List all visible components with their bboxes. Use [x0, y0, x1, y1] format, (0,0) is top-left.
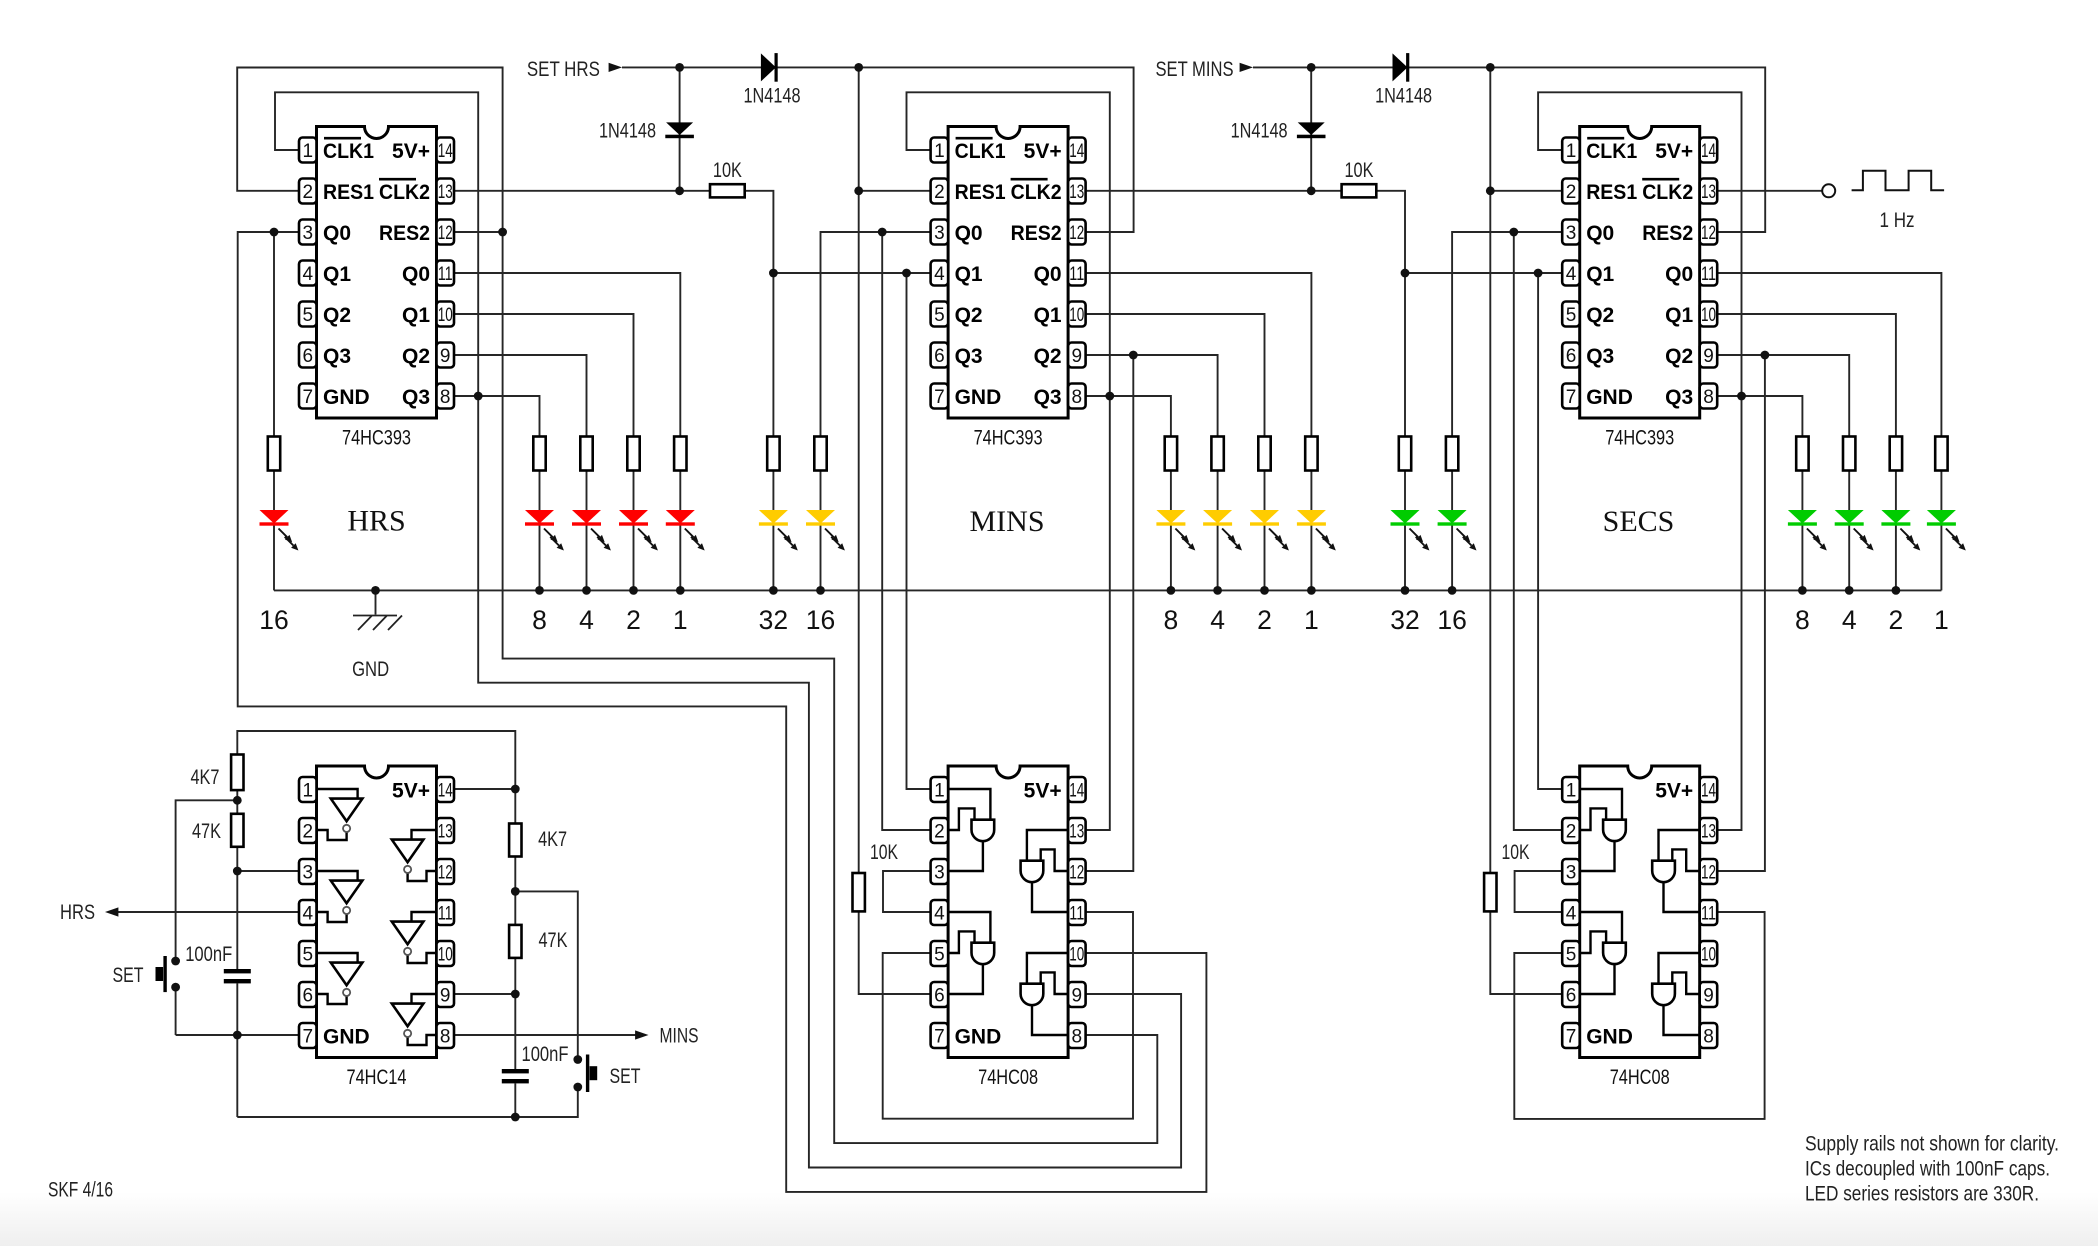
resistor 330R LED column 4 — [580, 437, 592, 471]
junction — [498, 228, 507, 237]
junction — [629, 586, 638, 595]
svg-text:2: 2 — [303, 182, 314, 203]
wire LED column x=820.5 resistor to LED — [820, 471, 822, 511]
resistor 330R LED column 32 — [1399, 437, 1411, 471]
svg-text:74HC14: 74HC14 — [347, 1066, 407, 1089]
svg-text:Q0: Q0 — [1034, 263, 1062, 286]
junction — [1307, 586, 1316, 595]
svg-text:13: 13 — [1069, 182, 1084, 203]
svg-text:10K: 10K — [713, 159, 742, 182]
AND gate U5c (pins 13,12-11) — [1021, 830, 1069, 912]
svg-text:5: 5 — [934, 945, 945, 966]
svg-text:2: 2 — [1566, 182, 1577, 203]
junction — [1892, 586, 1901, 595]
wire MINS RES1 stub — [859, 190, 931, 192]
wire 47KR to capR — [514, 958, 516, 1069]
wire HRS Q0 pin3 to U5 pin 10 (S3) — [238, 232, 1207, 1192]
svg-text:6: 6 — [303, 346, 314, 367]
svg-text:GND: GND — [323, 386, 370, 409]
wire LED column x=773.4 LED to bus — [772, 526, 774, 591]
svg-text:7: 7 — [303, 387, 314, 408]
wire MINS CLK1 feedback / Q3 to U5 pin 13 — [907, 92, 1110, 830]
svg-text:2: 2 — [303, 822, 314, 843]
wire U4 pin 3 stub — [237, 870, 299, 872]
svg-text:47K: 47K — [192, 820, 221, 843]
svg-text:7: 7 — [934, 1027, 945, 1048]
wire LED column x=1452.1 resistor to LED — [1451, 471, 1453, 511]
junction — [233, 1031, 242, 1040]
svg-text:10K: 10K — [1502, 841, 1530, 864]
wire HRS CLK2 row to 10K — [454, 190, 710, 192]
svg-text:74HC393: 74HC393 — [342, 427, 411, 450]
wire LED column x=1405 resistor to LED — [1404, 471, 1406, 511]
svg-text:11: 11 — [438, 264, 453, 285]
LED 2 (red) — [619, 510, 658, 551]
resistor 330R LED column 8 — [1165, 437, 1177, 471]
svg-text:Q1: Q1 — [955, 263, 983, 286]
svg-text:13: 13 — [438, 822, 453, 843]
IC U6 74HC08 (reset logic) — [1562, 766, 1717, 1089]
diode 1N4148 D4 (SET MINS series) — [1375, 53, 1432, 107]
svg-text:5V+: 5V+ — [1024, 140, 1062, 163]
svg-text:12: 12 — [438, 223, 453, 244]
wire LED column x=1217.6 LED to bus — [1217, 526, 1219, 591]
junction — [878, 228, 887, 237]
svg-text:10K: 10K — [1345, 159, 1374, 182]
svg-text:14: 14 — [1701, 141, 1716, 162]
svg-text:12: 12 — [1701, 223, 1716, 244]
arrow SET MINS — [1240, 63, 1253, 72]
svg-text:Q3: Q3 — [323, 345, 351, 368]
svg-text:Q2: Q2 — [1586, 304, 1614, 327]
arrow SET HRS — [609, 63, 622, 72]
svg-text:Q1: Q1 — [402, 304, 430, 327]
arrow MINS output — [635, 1030, 648, 1039]
wire LED column x=1895.9 LED to bus — [1895, 526, 1897, 591]
LED 1 (green) — [1927, 510, 1966, 551]
wire U4 pin 14 stub — [454, 788, 515, 790]
wire HRS RES2 stub — [454, 231, 503, 233]
inverter U4f (pins 9-8) — [392, 994, 437, 1045]
wire LED column x=1264.5 resistor to LED — [1264, 471, 1266, 511]
wire LED column x=274 LED to bus — [273, 526, 275, 591]
svg-text:SET HRS: SET HRS — [527, 58, 600, 81]
svg-text:10: 10 — [438, 305, 453, 326]
LED 32 (yellow) — [759, 510, 798, 551]
junction — [511, 785, 520, 794]
wire GND stub — [375, 590, 377, 614]
LED 4 (red) — [572, 510, 611, 551]
svg-text:4K7: 4K7 — [538, 828, 567, 851]
svg-text:3: 3 — [1566, 223, 1577, 244]
wire U5 pin 3 to pin 4 link — [883, 871, 931, 912]
svg-text:Q3: Q3 — [1665, 386, 1693, 409]
capacitor 100nF (MINS set) — [502, 1043, 569, 1083]
wire diode D2 branch — [1310, 67, 1312, 190]
svg-text:7: 7 — [1566, 1027, 1577, 1048]
svg-text:74HC08: 74HC08 — [1610, 1066, 1670, 1089]
wire HRS Q0b to LED-1 column — [454, 273, 680, 437]
wire SECS Q3 to LED-8 column — [1717, 396, 1802, 437]
resistor 330R LED column 1 — [1305, 437, 1317, 471]
svg-text:5: 5 — [303, 945, 314, 966]
svg-text:CLK1: CLK1 — [955, 140, 1006, 163]
svg-text:11: 11 — [438, 904, 453, 925]
wire 5V loop over U4 — [237, 731, 515, 789]
wire capL to rail — [236, 983, 238, 1117]
svg-text:2: 2 — [626, 605, 641, 635]
svg-text:9: 9 — [440, 346, 451, 367]
svg-text:5V+: 5V+ — [392, 140, 430, 163]
junction — [1761, 351, 1770, 360]
svg-text:4: 4 — [934, 264, 945, 285]
junction — [675, 186, 684, 195]
wire HRS LED-16 column top — [273, 232, 275, 437]
svg-text:Q2: Q2 — [402, 345, 430, 368]
wire 5V to 4K7R — [514, 789, 516, 824]
svg-text:32: 32 — [759, 605, 788, 635]
wire LED column x=274 resistor to LED — [273, 471, 275, 511]
svg-text:13: 13 — [1701, 182, 1716, 203]
wire LED column x=1264.5 LED to bus — [1264, 526, 1266, 591]
junction — [371, 586, 380, 595]
wire MINS Q3 to LED-8 column — [1086, 396, 1171, 437]
junction — [1105, 392, 1114, 401]
resistor 10K (HRS clock) — [710, 159, 745, 197]
junction — [1129, 351, 1138, 360]
wire LED column x=633.5 LED to bus — [633, 526, 635, 591]
junction — [233, 867, 242, 876]
svg-text:SECS: SECS — [1603, 505, 1675, 538]
wire LED column x=1802.4 resistor to LED — [1801, 471, 1803, 511]
junction — [1401, 586, 1410, 595]
wire U4 pin 4 HRS output — [112, 911, 299, 913]
wire SECS Q0 row to LED-16 column — [1452, 232, 1562, 437]
LED 1 (red) — [666, 510, 705, 551]
AND gate U6a (pins 1,2-3) — [1580, 789, 1626, 871]
resistor 10K (U6 reset) — [1484, 841, 1529, 911]
svg-text:14: 14 — [1069, 781, 1084, 802]
IC U5 74HC08 (reset logic) — [931, 766, 1086, 1089]
svg-text:Q0: Q0 — [402, 263, 430, 286]
junction — [511, 887, 520, 896]
junction — [816, 586, 825, 595]
svg-text:1: 1 — [303, 141, 314, 162]
svg-text:10K: 10K — [870, 841, 898, 864]
wire SECS Q0 to U6 pin 2 — [1514, 232, 1562, 830]
inverter U4b (pins 3-4) — [317, 871, 363, 922]
svg-text:32: 32 — [1390, 605, 1419, 635]
junction — [1401, 269, 1410, 278]
wire MINS Q1 row — [773, 272, 930, 274]
LED 4 (green) — [1835, 510, 1874, 551]
svg-text:12: 12 — [438, 863, 453, 884]
junction — [233, 796, 242, 805]
wire HRS Q2 to LED-4 column — [454, 355, 587, 437]
svg-text:Q0: Q0 — [1665, 263, 1693, 286]
svg-text:9: 9 — [440, 986, 451, 1007]
wire HRS Q1 to LED-2 column — [454, 314, 634, 437]
svg-text:GND: GND — [1586, 1025, 1633, 1048]
junction — [676, 586, 685, 595]
svg-text:8: 8 — [1072, 387, 1083, 408]
wire LED column x=1311.4 resistor to LED — [1310, 471, 1312, 511]
diode 1N4148 D1 (SET HRS) — [599, 120, 694, 143]
resistor 330R LED column 16 — [1446, 437, 1458, 471]
svg-text:5V+: 5V+ — [1655, 779, 1693, 802]
svg-text:13: 13 — [1701, 822, 1716, 843]
IC U3 74HC393 (seconds counter) — [1562, 127, 1717, 450]
capacitor 100nF (HRS set) — [185, 943, 251, 983]
svg-text:MINS: MINS — [660, 1025, 699, 1048]
wire MINS Q0b to LED-1 column — [1086, 273, 1312, 437]
wire LED column x=1849.2 LED to bus — [1848, 526, 1850, 591]
svg-text:4: 4 — [934, 904, 945, 925]
wire LED column x=1941.4 LED to bus — [1940, 526, 1942, 591]
wire SECS RES1 vertical — [1489, 67, 1491, 873]
wire LED column x=1941.4 resistor to LED — [1940, 471, 1942, 511]
svg-text:14: 14 — [438, 141, 453, 162]
wire SECS Q1b to LED-2 column — [1717, 314, 1896, 437]
svg-text:3: 3 — [934, 863, 945, 884]
svg-text:1 Hz: 1 Hz — [1880, 209, 1915, 232]
svg-text:3: 3 — [1566, 863, 1577, 884]
svg-text:1N4148: 1N4148 — [599, 120, 656, 143]
resistor 330R LED column 1 — [1935, 437, 1947, 471]
svg-text:Q3: Q3 — [1034, 386, 1062, 409]
svg-text:8: 8 — [1072, 1027, 1083, 1048]
svg-text:4: 4 — [303, 904, 314, 925]
inverter U4d (pins 13-12) — [392, 830, 437, 881]
svg-text:Q1: Q1 — [323, 263, 351, 286]
AND gate U6b (pins 4,5-6) — [1580, 912, 1626, 994]
wire HRS reset net: RES1/RES2 to U5 pin 8 (S2) — [237, 68, 1157, 1144]
resistor 10K (MINS clock) — [1342, 159, 1377, 197]
svg-text:Q2: Q2 — [1034, 345, 1062, 368]
svg-text:1N4148: 1N4148 — [1375, 85, 1432, 108]
svg-text:6: 6 — [1566, 346, 1577, 367]
wire LED column x=680.3 resistor to LED — [679, 471, 681, 511]
junction — [1845, 586, 1854, 595]
wire MINS Q1b to LED-2 column — [1086, 314, 1265, 437]
LED 32 (green) — [1391, 510, 1430, 551]
svg-text:8: 8 — [440, 1027, 451, 1048]
svg-text:6: 6 — [934, 986, 945, 1007]
AND gate U5a (pins 1,2-3) — [948, 789, 994, 871]
svg-text:GND: GND — [955, 1025, 1002, 1048]
junction — [1167, 586, 1176, 595]
svg-text:MINS: MINS — [969, 505, 1044, 538]
svg-text:8: 8 — [1703, 1027, 1714, 1048]
junction — [902, 269, 911, 278]
svg-text:3: 3 — [303, 863, 314, 884]
svg-text:SET MINS: SET MINS — [1156, 58, 1234, 81]
svg-text:1: 1 — [303, 781, 314, 802]
wire U4 pin 8 MINS output — [454, 1034, 636, 1036]
svg-text:Q2: Q2 — [323, 304, 351, 327]
svg-text:11: 11 — [1069, 904, 1084, 925]
svg-text:8: 8 — [1703, 387, 1714, 408]
svg-text:13: 13 — [1069, 822, 1084, 843]
wire MINS CLK2 row to 10K — [1086, 190, 1342, 192]
wire LED column x=820.5 LED to bus — [820, 526, 822, 591]
wire U4 pin 9 stub — [454, 993, 515, 995]
svg-text:Q0: Q0 — [1586, 222, 1614, 245]
svg-text:Q2: Q2 — [1665, 345, 1693, 368]
wire MINS Q0 row to LED-16 column — [821, 232, 931, 437]
resistor 330R LED column 8 — [533, 437, 545, 471]
svg-text:11: 11 — [1069, 264, 1084, 285]
svg-text:2: 2 — [1889, 605, 1904, 635]
svg-text:RES1: RES1 — [955, 181, 1006, 204]
svg-text:5: 5 — [1566, 945, 1577, 966]
svg-text:7: 7 — [303, 1027, 314, 1048]
junction — [1213, 586, 1222, 595]
wire U6 pin 3 to pin 4 link — [1515, 871, 1563, 912]
wire 10K-MINS to SECS Q1 node — [1376, 191, 1405, 273]
svg-text:2: 2 — [934, 182, 945, 203]
resistor 47K (HRS set) — [192, 814, 244, 847]
resistor 47K (MINS set) — [509, 925, 567, 958]
resistor 4K7 (HRS set) — [191, 755, 244, 791]
junction — [1486, 186, 1495, 195]
resistor 330R LED column 8 — [1796, 437, 1808, 471]
svg-text:1: 1 — [1934, 605, 1949, 635]
svg-text:HRS: HRS — [60, 901, 95, 924]
svg-text:12: 12 — [1701, 863, 1716, 884]
junction — [675, 63, 684, 72]
svg-text:9: 9 — [1072, 986, 1083, 1007]
svg-text:4: 4 — [1210, 605, 1225, 635]
wire SECS RES1 stub — [1490, 190, 1562, 192]
AND gate U5b (pins 4,5-6) — [948, 912, 994, 994]
wire HRS Q3 to LED-8 column — [454, 396, 540, 437]
wire LED column x=633.5 resistor to LED — [633, 471, 635, 511]
wire capR to rail — [514, 1083, 516, 1117]
inverter U4a (pins 1-2) — [317, 789, 363, 840]
svg-text:Q1: Q1 — [1586, 263, 1614, 286]
wire SECS CLK1 feedback / Q3 to U6 pin 13 — [1538, 92, 1741, 830]
resistor 330R LED column 4 — [1211, 437, 1223, 471]
svg-text:1: 1 — [1304, 605, 1319, 635]
junction — [854, 186, 863, 195]
svg-text:RES1: RES1 — [1586, 181, 1637, 204]
svg-text:4K7: 4K7 — [191, 766, 220, 789]
wire MINS Q2 to U5 pin 12 — [1086, 355, 1134, 871]
svg-text:5V+: 5V+ — [1655, 140, 1693, 163]
svg-text:CLK1: CLK1 — [1586, 140, 1637, 163]
svg-text:9: 9 — [1703, 986, 1714, 1007]
svg-text:7: 7 — [1566, 387, 1577, 408]
wire MINS Q1 to U5 pin 1 — [907, 273, 931, 789]
IC U1 74HC393 (hours counter) — [299, 127, 454, 450]
svg-text:4: 4 — [1842, 605, 1857, 635]
wire LED column x=1405 LED to bus — [1404, 526, 1406, 591]
junction — [1798, 586, 1807, 595]
resistor 330R LED column 2 — [1890, 437, 1902, 471]
wire SECS Q2 to LED-4 column — [1717, 355, 1849, 437]
svg-text:6: 6 — [934, 346, 945, 367]
wire 47KL to cap — [236, 847, 238, 969]
junction — [1486, 63, 1495, 72]
wire 10K-U6 to U6 pin 6 — [1490, 911, 1562, 994]
wire LED column x=1311.4 LED to bus — [1310, 526, 1312, 591]
svg-text:1: 1 — [1566, 781, 1577, 802]
svg-text:LED series resistors are 330R.: LED series resistors are 330R. — [1805, 1183, 2039, 1206]
svg-text:74HC393: 74HC393 — [974, 427, 1043, 450]
svg-text:2: 2 — [1566, 822, 1577, 843]
svg-text:Q0: Q0 — [955, 222, 983, 245]
svg-text:11: 11 — [1701, 904, 1716, 925]
wire LED column x=586.5 resistor to LED — [586, 471, 588, 511]
svg-text:RES2: RES2 — [1011, 222, 1062, 245]
diode 1N4148 D2 (SET MINS) — [1231, 120, 1326, 143]
junction — [535, 586, 544, 595]
svg-text:HRS: HRS — [347, 505, 405, 538]
svg-text:3: 3 — [934, 223, 945, 244]
svg-text:14: 14 — [1701, 781, 1716, 802]
svg-text:13: 13 — [438, 182, 453, 203]
wire bottom rail — [237, 1087, 578, 1117]
diode 1N4148 D3 (SET HRS series) — [744, 53, 801, 107]
wire LED cathode bus — [274, 589, 1941, 591]
svg-text:CLK1: CLK1 — [323, 140, 374, 163]
resistor 330R LED column 16 — [814, 437, 826, 471]
svg-text:SET: SET — [113, 964, 144, 987]
wire HRS CLK1 feedback / Q3 to U5 pin 9 (S1) — [275, 92, 1181, 1167]
wire SET MINS net — [1253, 67, 1765, 232]
1 Hz clock waveform symbol — [1852, 171, 1945, 191]
ground — [352, 616, 402, 682]
svg-text:8: 8 — [1795, 605, 1810, 635]
wire SET HRS net — [622, 67, 1134, 232]
svg-text:CLK2: CLK2 — [1011, 181, 1062, 204]
svg-text:Q1: Q1 — [1665, 304, 1693, 327]
svg-text:7: 7 — [934, 387, 945, 408]
LED 8 (red) — [525, 510, 564, 551]
junction — [511, 990, 520, 999]
wire 4K7L to 47KL — [236, 790, 238, 814]
svg-text:GND: GND — [352, 658, 389, 681]
svg-text:GND: GND — [323, 1025, 370, 1048]
resistor 10K (U5 reset) — [853, 841, 899, 911]
svg-text:5: 5 — [1566, 305, 1577, 326]
pushbutton SET (HRS) — [113, 956, 181, 992]
svg-text:ICs decoupled with 100nF caps.: ICs decoupled with 100nF caps. — [1805, 1158, 2050, 1181]
wire diode D1 branch — [679, 67, 681, 190]
svg-text:4: 4 — [303, 264, 314, 285]
svg-text:6: 6 — [303, 986, 314, 1007]
svg-text:14: 14 — [1069, 141, 1084, 162]
AND gate U6d (pins 10,9-8) — [1652, 953, 1700, 1035]
junction — [769, 269, 778, 278]
junction — [854, 63, 863, 72]
resistor 330R LED column 2 — [627, 437, 639, 471]
svg-text:16: 16 — [1437, 605, 1466, 635]
wire MINS LED-32 column top — [772, 273, 774, 437]
svg-text:10: 10 — [1701, 945, 1716, 966]
wire SECS LED-32 column top — [1404, 273, 1406, 437]
wire LED column x=539.5 LED to bus — [539, 526, 541, 591]
wire LED column x=1217.6 resistor to LED — [1217, 471, 1219, 511]
svg-text:Q3: Q3 — [402, 386, 430, 409]
svg-text:2: 2 — [934, 822, 945, 843]
svg-text:5: 5 — [934, 305, 945, 326]
svg-text:16: 16 — [259, 605, 288, 635]
resistor 330R LED column 2 — [1258, 437, 1270, 471]
svg-text:8: 8 — [532, 605, 547, 635]
wire SECS Q1 row — [1405, 272, 1562, 274]
